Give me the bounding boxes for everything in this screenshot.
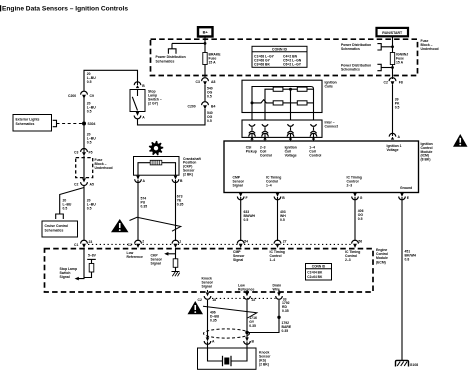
connector C2 2 xyxy=(135,240,142,248)
svg-text:C6=2 L–GY: C6=2 L–GY xyxy=(283,62,302,66)
svg-text:2–3: 2–3 xyxy=(345,258,351,262)
svg-text:C3: C3 xyxy=(196,80,200,84)
svg-text:Schematics: Schematics xyxy=(341,68,360,72)
wire CKP A to ECM pin 2 xyxy=(137,180,139,241)
ECM pullup supply bar xyxy=(87,258,96,260)
svg-text:B+: B+ xyxy=(203,30,209,35)
svg-text:Connect: Connect xyxy=(325,124,339,128)
svg-text:G: G xyxy=(360,196,363,200)
knock sensor internal wires xyxy=(208,342,248,362)
warning triangle top right xyxy=(453,134,468,147)
exterior lights schematics box xyxy=(13,115,52,132)
svg-text:(2 BK): (2 BK) xyxy=(183,172,193,176)
ICM bottom terminal F xyxy=(237,193,244,200)
ign/inj fuse xyxy=(390,53,394,65)
connector C2 18 xyxy=(204,292,211,299)
stop lamp switch terminal A xyxy=(134,112,141,119)
svg-text:CONN ID: CONN ID xyxy=(272,48,288,52)
svg-text:C3=68 BK: C3=68 BK xyxy=(254,62,270,66)
svg-text:Signal: Signal xyxy=(233,258,243,262)
svg-text:F: F xyxy=(246,196,248,200)
svg-text:0.35: 0.35 xyxy=(141,205,148,209)
svg-text:F8: F8 xyxy=(399,80,403,84)
svg-text:Voltage: Voltage xyxy=(387,148,399,152)
svg-text:C2: C2 xyxy=(198,298,202,302)
svg-text:1–4: 1–4 xyxy=(270,258,276,262)
knock terminal B xyxy=(244,337,251,344)
coil primary row bottom xyxy=(252,100,273,103)
wire C2A5 down to ECM xyxy=(83,186,85,242)
ECM CKP signal arrow xyxy=(168,253,176,255)
svg-text:0.5: 0.5 xyxy=(280,218,285,222)
conn id table top xyxy=(252,46,307,67)
knock terminal A xyxy=(204,337,211,344)
coils feed dot xyxy=(251,101,254,104)
svg-text:Control: Control xyxy=(260,153,272,157)
svg-text:56: 56 xyxy=(358,239,362,243)
wire run/start to ign fuse xyxy=(392,36,394,52)
splice S304 xyxy=(82,122,86,126)
svg-text:Cruise Control: Cruise Control xyxy=(45,224,69,228)
wire C200C9 to S304 xyxy=(83,98,85,152)
svg-text:Pickup: Pickup xyxy=(246,149,257,153)
coils feed loop xyxy=(252,87,314,113)
svg-text:(2 GY): (2 GY) xyxy=(148,102,158,106)
svg-text:1: 1 xyxy=(179,239,181,243)
ECM pullup resistor xyxy=(91,259,93,263)
connector C200 B4 xyxy=(202,102,209,110)
power distribution bracket left xyxy=(168,49,176,54)
wire power distribution branch upper right xyxy=(381,46,393,48)
svg-text:Reference: Reference xyxy=(238,288,255,292)
CKP reluctor gear xyxy=(149,141,164,156)
svg-text:Engine Data Sensors – Ignition: Engine Data Sensors – Ignition Controls xyxy=(2,6,128,13)
wire CKP B to ECM pin 1 xyxy=(175,180,177,241)
ignition control module box xyxy=(224,141,419,193)
wire power distribution branch lower right xyxy=(381,67,393,69)
svg-text:S304: S304 xyxy=(88,122,96,126)
svg-text:54: 54 xyxy=(244,239,248,243)
exterior lights bracket xyxy=(53,120,57,126)
svg-text:C2=64 BK: C2=64 BK xyxy=(307,275,323,279)
svg-text:Signal: Signal xyxy=(151,261,161,265)
stop lamp switch terminal B xyxy=(134,82,141,88)
svg-text:Signal: Signal xyxy=(233,184,243,188)
svg-text:0.5: 0.5 xyxy=(63,207,68,211)
wire C2F8 to ICM A xyxy=(392,85,394,136)
warning triangle CKP xyxy=(111,219,129,232)
svg-text:C2: C2 xyxy=(384,80,388,84)
ICM terminal A xyxy=(389,133,396,139)
interconnect box xyxy=(242,120,322,137)
svg-text:2: 2 xyxy=(142,239,144,243)
svg-text:0.5: 0.5 xyxy=(244,218,249,222)
drain junction dot xyxy=(245,331,248,334)
wire dashed to exterior lights xyxy=(57,123,83,125)
ICM top terminal 1 xyxy=(249,133,256,139)
svg-text:0.5: 0.5 xyxy=(87,110,92,114)
fuse block underhood box xyxy=(151,39,418,75)
ICM top terminal 4 xyxy=(310,133,317,139)
connector C3 F5 xyxy=(81,149,88,157)
wire E to ground G108 xyxy=(401,197,403,360)
svg-text:Signal: Signal xyxy=(60,275,70,279)
ECM knock signal wire xyxy=(207,290,209,292)
connector pin 22 xyxy=(244,292,251,299)
ICM bottom terminal G xyxy=(352,193,359,200)
svg-text:0.5: 0.5 xyxy=(87,141,92,145)
svg-text:Schematics: Schematics xyxy=(16,122,35,126)
svg-text:RUN/START: RUN/START xyxy=(382,31,403,35)
svg-text:23: 23 xyxy=(89,240,93,244)
svg-text:Underhood: Underhood xyxy=(421,47,439,51)
svg-text:0.35: 0.35 xyxy=(210,319,217,323)
svg-text:0.5: 0.5 xyxy=(87,207,92,211)
connector pin 56 xyxy=(352,240,359,248)
CKP terminal A xyxy=(135,176,142,183)
connector pin 27 xyxy=(274,240,281,248)
ECM bottom connector bus dotted line xyxy=(212,297,276,299)
svg-text:Schematics: Schematics xyxy=(341,47,360,51)
knock sensor element xyxy=(223,356,232,366)
coil 4 xyxy=(297,101,307,105)
ECM internal ground xyxy=(172,271,180,273)
shield ellipse xyxy=(204,329,250,338)
CKP sensor element xyxy=(150,160,162,165)
coil 1 xyxy=(273,87,283,91)
svg-text:1–4: 1–4 xyxy=(266,184,272,188)
svg-text:0.35: 0.35 xyxy=(177,203,184,207)
wire coils to interconnect 4 xyxy=(313,113,315,124)
svg-text:C200: C200 xyxy=(188,104,196,108)
CKP terminal B xyxy=(172,176,179,183)
wire branch to cruise control xyxy=(60,188,84,215)
svg-text:B4: B4 xyxy=(211,104,215,108)
svg-text:27: 27 xyxy=(283,239,287,243)
wire stop lamp B up and left xyxy=(84,70,138,91)
power distribution bracket lower right xyxy=(377,64,381,70)
svg-text:15 A: 15 A xyxy=(396,61,404,65)
connector C3 A8 xyxy=(202,78,209,86)
ICM top terminal 3 xyxy=(287,133,294,139)
svg-text:C2: C2 xyxy=(74,182,78,186)
svg-text:G108: G108 xyxy=(410,363,418,367)
ECM stop lamp signal wire xyxy=(79,249,85,279)
CKP sensor box xyxy=(134,157,180,176)
svg-text:Underhood: Underhood xyxy=(95,166,113,170)
ICM bottom terminal B xyxy=(274,193,281,200)
wire coils to interconnect 3 xyxy=(290,113,292,124)
power distribution bracket upper right xyxy=(377,44,381,50)
battery B+ box xyxy=(198,27,213,36)
ICM bottom terminal E xyxy=(399,193,406,200)
svg-text:CONN ID: CONN ID xyxy=(312,265,326,269)
run/start box xyxy=(377,28,409,36)
twisted pair pointer knock xyxy=(203,306,257,318)
wire C200B4 down and left to stop lamp switch A xyxy=(138,109,206,125)
svg-text:A8: A8 xyxy=(211,80,215,84)
svg-text:15 A: 15 A xyxy=(209,61,217,65)
connector pin 1 xyxy=(172,240,179,248)
warning triangle knock xyxy=(188,301,204,314)
svg-text:0.35: 0.35 xyxy=(249,324,256,328)
coil 3 xyxy=(273,101,283,105)
knock sensor box xyxy=(198,348,257,369)
svg-text:Voltage: Voltage xyxy=(285,153,297,157)
connector C2 F8 xyxy=(389,78,396,86)
svg-text:Ground: Ground xyxy=(400,186,412,190)
svg-text:Exterior Lights: Exterior Lights xyxy=(16,118,40,122)
svg-text:Reference: Reference xyxy=(127,255,144,259)
coil 2 xyxy=(297,87,307,91)
svg-text:Signal: Signal xyxy=(202,285,212,289)
svg-text:0.5: 0.5 xyxy=(207,95,212,99)
interconnect terminals 2 xyxy=(262,124,268,133)
svg-text:0.5: 0.5 xyxy=(207,119,212,123)
svg-text:18: 18 xyxy=(212,298,216,302)
svg-text:0.8: 0.8 xyxy=(405,258,410,262)
svg-text:(ECM): (ECM) xyxy=(376,260,386,264)
brake fuse xyxy=(203,53,207,65)
svg-text:C3: C3 xyxy=(74,151,78,155)
svg-text:(2 BK): (2 BK) xyxy=(259,363,269,367)
wire pin 22 to knock B xyxy=(246,300,248,338)
svg-text:0.35: 0.35 xyxy=(282,309,289,313)
svg-text:Coils: Coils xyxy=(325,84,333,88)
wire power distribution branch xyxy=(172,43,205,48)
connector pin 33 xyxy=(276,292,283,299)
ground G108 xyxy=(396,360,409,366)
ECM drain wire stub xyxy=(278,290,280,292)
svg-text:5–8V: 5–8V xyxy=(88,253,97,257)
coil primary row top xyxy=(265,89,273,112)
interconnect terminals 1 xyxy=(249,124,255,133)
connector C2 A5 xyxy=(81,178,88,185)
svg-text:0.35: 0.35 xyxy=(282,329,289,333)
svg-text:A5: A5 xyxy=(90,182,94,186)
svg-text:0.5: 0.5 xyxy=(358,217,363,221)
svg-text:C200: C200 xyxy=(68,94,76,98)
stop lamp switch box xyxy=(130,90,145,112)
svg-text:(8 BK): (8 BK) xyxy=(421,158,431,162)
ECM low ref wire xyxy=(246,290,248,292)
connector pin 54 xyxy=(237,240,244,248)
wire F to pin 54 xyxy=(240,197,242,241)
twisted pair pointer CKP xyxy=(130,217,181,231)
stop lamp switch blade xyxy=(137,90,139,97)
interconnect terminals 4 xyxy=(310,124,316,133)
svg-text:Schematics: Schematics xyxy=(45,229,64,233)
coil top row dot xyxy=(289,88,292,91)
fuse block underhood pass box xyxy=(76,158,93,178)
wire through pass box xyxy=(83,156,85,178)
svg-text:0.5: 0.5 xyxy=(395,105,400,109)
svg-text:C1: C1 xyxy=(74,243,78,247)
drain splice dot xyxy=(277,316,280,319)
ICM top terminal 2 xyxy=(262,133,269,139)
cruise control schematics box xyxy=(42,221,78,237)
svg-text:Control: Control xyxy=(309,153,321,157)
wire B to pin 27 xyxy=(277,197,279,241)
svg-text:22: 22 xyxy=(252,298,256,302)
ECM top connector bus dotted line xyxy=(88,243,352,245)
wire pin 33 drain xyxy=(247,300,279,333)
cruise control bracket xyxy=(56,214,64,219)
coil control vertical xyxy=(290,89,292,112)
ignition coils box xyxy=(242,80,322,112)
interconnect terminals 3 xyxy=(287,124,293,133)
ECM CKP signal resistor xyxy=(175,249,177,259)
ECM conn id table xyxy=(306,264,332,281)
wire coils to interconnect 2 xyxy=(264,113,266,124)
svg-text:2–3: 2–3 xyxy=(347,184,353,188)
connector C200 C9 xyxy=(81,91,88,99)
connector C1 23 xyxy=(81,240,88,248)
wire G to pin 56 xyxy=(354,197,356,241)
svg-text:C9: C9 xyxy=(90,94,94,98)
wire coils to interconnect 1 xyxy=(251,103,253,123)
svg-text:Schematics: Schematics xyxy=(156,59,175,63)
wire B+ to brake fuse xyxy=(204,37,206,53)
title xyxy=(0,5,1,11)
svg-text:0.5: 0.5 xyxy=(87,80,92,84)
wire C3A8 to C200B4 xyxy=(204,85,206,102)
engine control module box xyxy=(45,249,374,292)
wire pin 18 to knock A xyxy=(207,300,209,338)
svg-text:F5: F5 xyxy=(89,151,93,155)
CKP sensor inner loop xyxy=(138,163,176,176)
